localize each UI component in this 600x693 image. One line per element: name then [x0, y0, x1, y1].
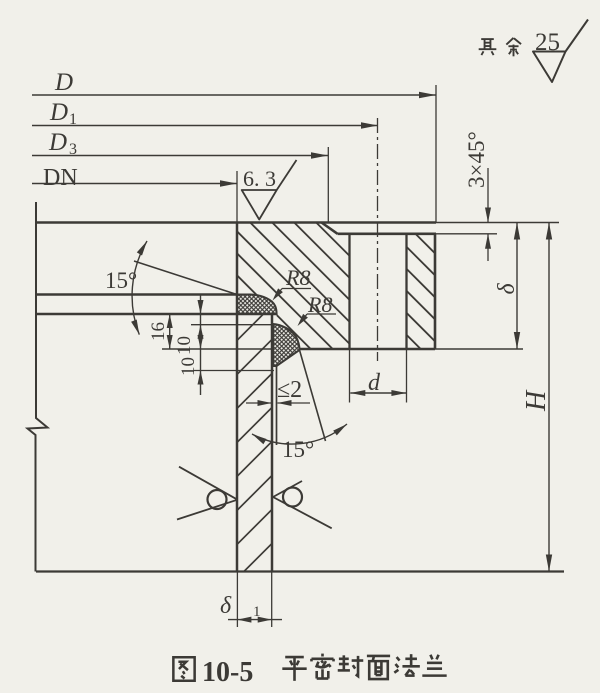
svg-text:1: 1 — [69, 111, 77, 128]
svg-text:δ: δ — [494, 283, 520, 295]
svg-text:DN: DN — [43, 165, 78, 191]
svg-text:H: H — [521, 389, 552, 412]
svg-text:6. 3: 6. 3 — [243, 166, 276, 191]
svg-text:10-5: 10-5 — [202, 657, 253, 688]
svg-text:d: d — [368, 370, 381, 396]
svg-text:10: 10 — [178, 357, 199, 376]
svg-text:25: 25 — [535, 29, 560, 56]
svg-text:R8: R8 — [307, 292, 332, 317]
svg-text:15°: 15° — [282, 437, 314, 462]
svg-text:15°: 15° — [105, 268, 137, 293]
svg-text:D: D — [48, 129, 67, 156]
svg-text:10: 10 — [174, 336, 195, 355]
svg-text:3: 3 — [69, 141, 77, 158]
svg-text:δ: δ — [220, 593, 232, 619]
svg-text:D: D — [49, 99, 68, 126]
svg-text:D: D — [54, 69, 73, 96]
svg-text:3×45°: 3×45° — [464, 131, 489, 188]
svg-text:≤2: ≤2 — [277, 377, 302, 403]
svg-text:R8: R8 — [285, 265, 310, 290]
svg-text:1: 1 — [253, 604, 261, 620]
svg-text:16: 16 — [148, 322, 169, 341]
